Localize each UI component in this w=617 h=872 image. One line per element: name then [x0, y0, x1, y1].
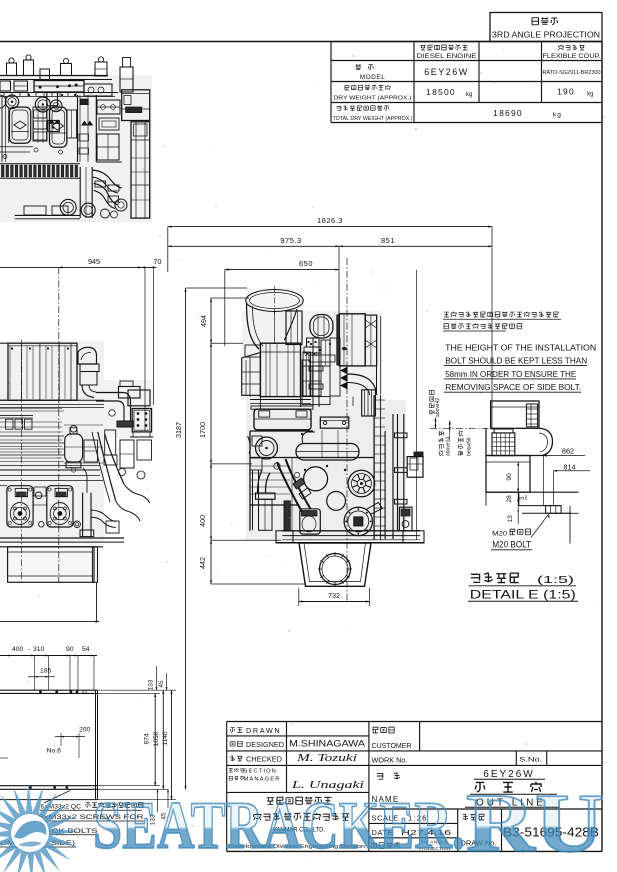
bottom pipes [79, 167, 81, 218]
stack duct [286, 311, 302, 345]
svg-text:945: 945 [88, 257, 100, 266]
svg-text:above42: above42 [435, 398, 441, 417]
svg-text:M20: M20 [492, 530, 507, 537]
svg-text:REMOVING SPACE OF SIDE BOLT.: REMOVING SPACE OF SIDE BOLT. [445, 382, 581, 392]
svg-text:RU: RU [466, 777, 604, 870]
spoked handwheel [348, 470, 375, 497]
bolted wheel [344, 507, 372, 535]
svg-text:18500: 18500 [426, 87, 456, 97]
mounting foot [407, 457, 423, 478]
svg-text:185: 185 [40, 668, 52, 675]
svg-text:kg: kg [466, 92, 472, 98]
gear circles [5, 95, 18, 108]
svg-text:M. Tozuki: M. Tozuki [296, 753, 358, 764]
svg-text:M20 BOLT: M20 BOLT [492, 540, 532, 550]
svg-text:WORK No.: WORK No. [372, 755, 408, 764]
fuel valve bottles [9, 107, 30, 143]
svg-text:310: 310 [33, 646, 45, 653]
svg-text:732: 732 [328, 591, 340, 600]
svg-text:90: 90 [506, 473, 513, 481]
left view top block [8, 343, 77, 400]
dark band left of sump [284, 501, 290, 531]
svg-text:133: 133 [148, 679, 155, 690]
right pipe w/ flanges [397, 414, 399, 531]
svg-text:1700: 1700 [198, 422, 207, 438]
svg-text:TOTAL DRY WEIGHT (APPROX.): TOTAL DRY WEIGHT (APPROX.) [333, 116, 413, 122]
crankcase band [0, 442, 64, 444]
S-pipe with flanges [277, 462, 302, 512]
dim 3187 [185, 288, 187, 790]
svg-text:DRAWN: DRAWN [246, 726, 281, 735]
exhaust bend [247, 303, 260, 349]
charge cooler [339, 314, 365, 366]
svg-text:M.SHINAGAWA: M.SHINAGAWA [289, 739, 365, 749]
svg-text:650: 650 [299, 259, 313, 268]
svg-text:400: 400 [198, 515, 207, 527]
mid horizontals [0, 408, 62, 410]
svg-text:1140: 1140 [162, 731, 169, 746]
svg-text:MODEL: MODEL [360, 74, 386, 81]
leader M20 [531, 514, 549, 538]
svg-text:975.3: 975.3 [280, 236, 301, 245]
svg-text:3: 3 [519, 496, 526, 500]
svg-text:874: 874 [144, 733, 151, 744]
gap fillers upper [303, 352, 311, 396]
dims 494/1700/400/442 [210, 298, 212, 584]
svg-text:S.No.: S.No. [519, 756, 542, 763]
between boxes pipes [302, 360, 310, 396]
flange cluster [307, 338, 320, 347]
exhaust outlet ellipse [246, 290, 303, 312]
round port [256, 437, 278, 459]
svg-text:THE HEIGHT OF THE INSTALLATION: THE HEIGHT OF THE INSTALLATION [445, 342, 596, 352]
detail E drawing [491, 401, 539, 428]
base & bed [0, 537, 124, 539]
svg-text:SECTION: SECTION [244, 769, 277, 775]
svg-text:kg: kg [553, 112, 562, 119]
air box upper [260, 343, 300, 396]
funnel & silencer [78, 347, 97, 364]
svg-text:28: 28 [506, 495, 513, 503]
svg-text:MANAGER: MANAGER [244, 777, 281, 783]
svg-text:FLEXIBLE COUP.: FLEXIBLE COUP. [543, 53, 601, 60]
accumulator [65, 434, 83, 462]
svg-text:SEATRACKER.: SEATRACKER. [93, 787, 465, 863]
DETAIL E caption [471, 573, 519, 583]
left elbow pipe [258, 470, 263, 493]
svg-text:CUSTOMER: CUSTOMER [372, 741, 412, 750]
base flange [282, 530, 420, 532]
extension horizontals right [98, 689, 177, 691]
jack bolts note [44, 791, 70, 804]
svg-text:442: 442 [198, 557, 207, 569]
svg-text:DIESEL ENGINE: DIESEL ENGINE [417, 53, 477, 60]
svg-text:45: 45 [158, 680, 165, 688]
svg-text:DESIGNED: DESIGNED [246, 742, 284, 749]
svg-text:CHECKED: CHECKED [246, 757, 282, 764]
engine block outline [250, 431, 374, 531]
slant side box [242, 353, 261, 396]
svg-text:below58: below58 [467, 437, 473, 456]
screw plate [320, 417, 349, 428]
valve caps above rail [7, 63, 17, 76]
svg-text:DETAIL E (1:5): DETAIL E (1:5) [470, 590, 576, 602]
center pipe down [82, 493, 84, 537]
extension lines [167, 227, 169, 272]
JP note lines [444, 312, 558, 317]
watermark sun logo [0, 784, 79, 872]
big circles [304, 467, 328, 491]
svg-text:851: 851 [381, 236, 395, 245]
svg-text:400: 400 [12, 646, 24, 653]
rails [0, 689, 98, 691]
governor dark box [362, 390, 376, 416]
svg-text:814: 814 [563, 462, 575, 471]
right blocks [122, 90, 150, 121]
horizontal pipe to right [96, 392, 124, 394]
svg-text:above14: above14 [446, 437, 452, 456]
svg-text:1826.3: 1826.3 [317, 216, 343, 225]
extra top fittings [0, 81, 11, 91]
svg-text:70: 70 [154, 257, 162, 266]
svg-text:BOLT SHOULD BE KEPT LESS THAN: BOLT SHOULD BE KEPT LESS THAN [445, 356, 587, 366]
comb row [0, 163, 80, 165]
svg-text:494: 494 [199, 315, 208, 327]
svg-text:3187: 3187 [174, 422, 183, 438]
border frame [0, 41, 602, 43]
svg-text:18690: 18690 [493, 108, 523, 118]
svg-text:kg: kg [587, 92, 593, 98]
center column [77, 95, 79, 162]
svg-text:90: 90 [66, 646, 74, 653]
svg-text:1050: 1050 [153, 731, 160, 746]
left view extra detail [11, 347, 13, 349]
right bend pipe [347, 374, 377, 395]
right panel [365, 315, 377, 366]
svg-text:58mm IN ORDER TO ENSURE THE: 58mm IN ORDER TO ENSURE THE [445, 369, 576, 379]
svg-text:54: 54 [82, 646, 90, 653]
svg-text:No.6: No.6 [47, 748, 62, 755]
cap with ears [47, 93, 58, 106]
oil sump [299, 543, 371, 586]
pumps [7, 486, 33, 527]
dark wedges [341, 367, 348, 374]
svg-text:13: 13 [507, 515, 514, 523]
874/1050/1140 dims [154, 693, 156, 785]
svg-text:DRY WEIGHT (APPROX.): DRY WEIGHT (APPROX.) [334, 96, 412, 102]
right ladder channel [373, 395, 375, 540]
svg-text:190: 190 [557, 87, 575, 97]
svg-text:200: 200 [79, 727, 91, 734]
turbo capsule [310, 315, 333, 339]
rocker cover rail [254, 409, 311, 430]
svg-text:6EY26W: 6EY26W [424, 67, 469, 77]
charge manifold pipe [296, 444, 359, 461]
right stepped blocks & panel [119, 387, 141, 399]
svg-text:-: - [28, 646, 30, 653]
svg-text:RATO-SG2911-BR2300: RATO-SG2911-BR2300 [543, 70, 601, 76]
svg-text:3RD ANGLE PROJECTION: 3RD ANGLE PROJECTION [492, 31, 600, 40]
rotated small dims [429, 390, 434, 414]
svg-text:862: 862 [562, 447, 574, 456]
diagonal pipes [98, 432, 116, 501]
svg-text:(1:5): (1:5) [537, 574, 574, 586]
bottom-left pump [300, 509, 321, 534]
